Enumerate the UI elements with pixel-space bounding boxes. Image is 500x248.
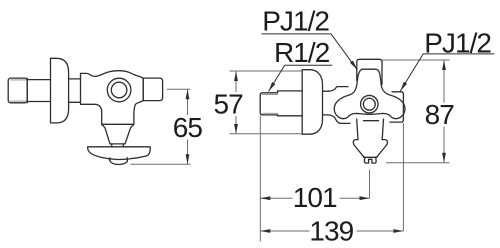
wall face extension line <box>259 116 261 242</box>
101 riser to nozzle <box>369 170 371 199</box>
87 extension bottom <box>386 162 450 164</box>
left view: outlet nub <box>110 158 128 165</box>
right view: bonnet bell <box>353 140 387 158</box>
PJ1/2 top-left underline + leader <box>262 34 358 70</box>
PJ1/2 right underline + leader <box>400 54 494 91</box>
arrowheads <box>186 60 446 233</box>
left view: nut neck <box>112 144 124 147</box>
left view: outlet saucer flange <box>88 147 151 160</box>
right view: nipple chamfer lines <box>263 94 278 113</box>
arrow 87 bottom <box>442 153 446 163</box>
87 dimension line <box>443 60 445 163</box>
arrow 139 right <box>393 229 403 233</box>
svg-text:65: 65 <box>173 112 203 143</box>
svg-text:PJ1/2: PJ1/2 <box>424 27 491 58</box>
svg-text:PJ1/2: PJ1/2 <box>262 6 329 37</box>
arrow 57 bottom <box>234 124 238 134</box>
svg-text:57: 57 <box>214 89 244 120</box>
arrow 65 top <box>186 89 190 99</box>
label underlines and leaders <box>262 34 495 92</box>
left view: nipple chamfer lines <box>11 80 28 101</box>
left view: valve body with right arm <box>81 71 144 125</box>
right view: right outlet port PJ1/2 <box>390 92 403 122</box>
57 extension top <box>230 70 303 72</box>
57 dimension line <box>235 71 237 134</box>
right view: top port cap PJ1/2 <box>357 59 382 84</box>
right view: threaded nipple <box>260 93 277 115</box>
right view: wall flange <box>302 70 322 135</box>
87 extension top <box>382 59 450 61</box>
dimension and extension lines <box>131 60 450 242</box>
arrow 139 left <box>260 229 270 233</box>
arrow 101 left <box>260 196 270 200</box>
101 dimension line <box>260 197 369 199</box>
left view: pipe between nipple and flange <box>27 78 50 103</box>
left view: threaded nipple R1/2 <box>8 78 27 103</box>
left view: wall flange <box>51 58 69 123</box>
left view: handle screw boss inner circle <box>111 82 127 98</box>
arrow leader PJ1/2 left <box>350 61 357 70</box>
right view: body socket left fillets <box>328 87 351 124</box>
right view: handle center screw circle outer <box>361 95 379 113</box>
139 dimension line <box>260 230 403 232</box>
right view: bell bottom edge <box>364 156 377 158</box>
svg-text:87: 87 <box>425 99 455 130</box>
right view: serrated aerator collar <box>364 158 376 164</box>
57 extension bottom <box>230 133 303 135</box>
left view: bonnet nut (tapered) <box>102 124 134 144</box>
right view: bonnet neck <box>357 119 384 139</box>
svg-text:R1/2: R1/2 <box>274 37 330 68</box>
arrow 101 right <box>360 196 370 200</box>
65 dimension line <box>187 89 189 164</box>
svg-text:139: 139 <box>309 216 353 247</box>
arrow 65 bottom <box>186 154 190 164</box>
65 extension bottom <box>131 163 191 165</box>
arrow 87 top <box>442 60 446 70</box>
right view: tri-lobe handle <box>334 69 405 118</box>
right view: line between bottom lobes <box>364 120 379 122</box>
arrow 57 top <box>234 71 238 81</box>
R1/2 underline + leader <box>269 65 333 91</box>
right view: pipe between nipple and flange <box>278 91 303 116</box>
left view: arm end cap <box>143 78 162 101</box>
svg-text:101: 101 <box>293 182 337 213</box>
right view: pipe between flange and body socket <box>323 91 329 115</box>
65 extension top <box>167 88 191 90</box>
139 riser at right port <box>402 123 404 231</box>
arrow leader PJ1/2 right <box>400 82 407 92</box>
right view: handle center screw circle inner <box>363 98 375 110</box>
left view: pipe between flange and body <box>69 79 81 102</box>
left view: handle screw boss outer circle <box>107 78 131 102</box>
arrow leader R1/2 <box>269 82 276 92</box>
